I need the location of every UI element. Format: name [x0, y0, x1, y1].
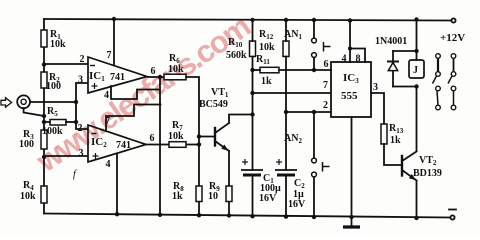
svg-text:4: 4 — [104, 90, 109, 101]
svg-text:2: 2 — [78, 123, 83, 134]
svg-text:6: 6 — [324, 59, 329, 70]
svg-text:6: 6 — [150, 133, 155, 144]
svg-text:7: 7 — [107, 50, 112, 61]
wire R5 leads — [44, 121, 76, 123]
svg-text:BD139: BD139 — [413, 168, 442, 179]
plus sign IC2 — [93, 153, 99, 159]
wire R11 leads / pin6 line — [253, 69, 332, 71]
svg-text:3: 3 — [78, 75, 83, 86]
wire IC1 pin7 to +12V rail — [113, 19, 115, 65]
wire long vertical to ground — [159, 77, 161, 215]
relay contacts column 1 — [433, 54, 441, 110]
wire IC2 pin3 — [44, 155, 88, 157]
plus sign IC1 — [92, 83, 98, 89]
wire IC2 output — [146, 144, 169, 146]
wire R10 leads — [252, 20, 254, 170]
resistor R13 — [381, 124, 387, 144]
wire R12 vertical — [285, 20, 287, 170]
svg-text:3: 3 — [79, 148, 84, 159]
resistor R7 — [169, 142, 186, 148]
svg-text:10k: 10k — [259, 42, 275, 53]
svg-text:4: 4 — [342, 54, 347, 65]
wire 555 pin7 line — [253, 92, 332, 94]
node dot collector — [250, 112, 254, 116]
transistor Q2 VT2 BD139 — [402, 152, 417, 219]
svg-text:100: 100 — [46, 81, 61, 92]
wire jack sleeve — [24, 108, 44, 116]
svg-text:4: 4 — [106, 159, 111, 170]
node +12V terminal — [451, 18, 455, 22]
op-amp U1 IC1 741 — [88, 57, 147, 93]
node output junction — [158, 75, 162, 79]
wire IC1 output — [147, 76, 164, 78]
relay contacts column 2 — [448, 54, 456, 110]
svg-text:3: 3 — [373, 82, 378, 93]
svg-text:741: 741 — [110, 72, 125, 83]
wire bottom rail — [44, 214, 450, 218]
node dots base — [197, 134, 201, 146]
wire R13 to VT2 base — [384, 144, 402, 165]
svg-text:+12V: +12V — [440, 32, 465, 44]
svg-text:BC549: BC549 — [199, 99, 228, 110]
resistor R3 — [41, 130, 47, 149]
timer U3 IC3 555 — [331, 62, 371, 117]
svg-text:16V: 16V — [259, 193, 277, 204]
svg-text:100k: 100k — [42, 126, 63, 137]
capacitor C2 — [275, 170, 297, 217]
resistor R1 — [41, 30, 47, 47]
wire IC1 pin2 — [44, 63, 88, 65]
resistor R8 — [196, 186, 202, 202]
transistor Q1 VT1 BC549 — [199, 115, 253, 187]
svg-text:1k: 1k — [261, 76, 272, 87]
wire relay to VT2 collector — [416, 87, 418, 152]
resistor R5 — [50, 120, 66, 126]
input arrow — [1, 98, 12, 108]
ground — [343, 225, 360, 228]
node dot pin7 rail — [112, 17, 116, 21]
capacitor C1 — [241, 170, 263, 216]
svg-text:2: 2 — [80, 54, 85, 65]
svg-text:555: 555 — [341, 90, 358, 102]
svg-text:10k: 10k — [20, 191, 36, 202]
svg-text:10k: 10k — [168, 131, 184, 142]
op-amp U2 IC2 741 — [88, 125, 146, 162]
svg-text:1k: 1k — [172, 191, 183, 202]
svg-text:16V: 16V — [288, 199, 306, 210]
svg-text:10k: 10k — [168, 64, 184, 75]
wire 555 pin1 to ground — [351, 117, 353, 226]
node junction dots left rail — [42, 62, 46, 159]
minus sign IC1 — [90, 65, 95, 67]
wire jack tip to node — [24, 102, 76, 116]
svg-text:7: 7 — [323, 80, 328, 91]
wire R6 to base node — [186, 77, 199, 186]
wire IC1 pin3 vertical — [76, 83, 88, 129]
wire top rail — [44, 19, 451, 21]
wire IC1 pin4 staircase — [111, 86, 160, 99]
svg-text:741: 741 — [116, 140, 131, 151]
node input dots — [74, 100, 78, 124]
input jack connector — [17, 95, 30, 108]
svg-text:7: 7 — [105, 116, 110, 127]
watermark www.elecfans.com — [29, 8, 257, 179]
emitter arrow VT1 — [221, 145, 228, 151]
wire IC2 pin4 to ground rail — [116, 153, 118, 214]
wire 555 pin2 line — [286, 111, 331, 113]
svg-text:J: J — [413, 65, 418, 76]
wire left rail — [43, 19, 45, 214]
wire R7 right lead — [186, 144, 199, 146]
resistor R2 — [41, 72, 47, 88]
svg-text:560k: 560k — [226, 50, 247, 61]
resistor R4 — [41, 186, 47, 203]
svg-text:1N4001: 1N4001 — [375, 36, 407, 47]
node dot pin4 rail — [115, 212, 119, 216]
node output terminal minus — [450, 215, 454, 219]
relay J — [409, 60, 424, 78]
svg-text:10k: 10k — [50, 39, 66, 50]
resistor R11 — [260, 67, 279, 73]
resistor R9 — [226, 186, 232, 202]
svg-text:1k: 1k — [390, 135, 401, 146]
minus sign IC2 — [92, 133, 97, 135]
svg-text:6: 6 — [151, 66, 156, 77]
svg-text:10: 10 — [208, 191, 218, 202]
resistor R6 — [164, 74, 186, 80]
svg-text:2: 2 — [323, 100, 328, 111]
wire 555 pins 4 8 — [350, 21, 365, 63]
node dots timing — [250, 68, 254, 95]
wire 555 pin3 to R13 — [371, 93, 384, 124]
svg-text:100: 100 — [19, 139, 34, 150]
resistor R12 — [283, 41, 289, 57]
svg-text:8: 8 — [356, 54, 361, 65]
resistor R10 — [250, 41, 256, 57]
wire IC2 pin7 staircase — [106, 105, 161, 132]
